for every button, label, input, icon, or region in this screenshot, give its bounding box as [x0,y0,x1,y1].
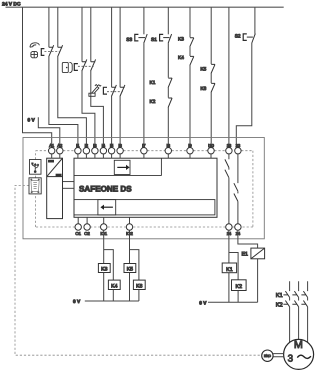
svg-text:A2: A2 [57,143,63,148]
pushbutton S3 contact NO [144,34,148,43]
wires contactor to motor [290,297,308,300]
svg-text:I3: I3 [93,143,97,148]
wire S2 to terminal 23 [236,43,252,148]
wire e-stop channel 2 to I2 [58,57,87,148]
wire e-stop channel 2 (bus to contact) [57,8,59,48]
USB port box [30,160,42,175]
brake E1 [251,248,265,259]
pushbutton S2 actuator [243,34,247,41]
terminal I8 [165,148,171,154]
motor shaft to encoder [273,354,284,357]
encoder ENC [262,350,273,361]
wire left rail to A1 [23,8,52,148]
enabling device (hand) icon [89,85,101,97]
terminal I10 [208,148,214,154]
wire K1 to 0V [228,273,230,303]
svg-text:I9: I9 [188,143,192,148]
three-phase supply stubs [290,281,308,291]
coil K5 [124,264,136,273]
enabling contact NC channel 1 [111,85,116,97]
motor tilde [297,355,311,358]
coil K3 [98,264,110,273]
D-sub programming connector box [29,178,41,194]
enabling device mechanical link (dashed) [107,91,123,93]
wire K3 to 0V [103,273,105,302]
wire K4 to 0V [112,290,114,302]
coil K6 [133,280,145,289]
terminal A2 [57,148,63,154]
safety output contact 23-24 (blades) [234,183,238,201]
power supply unit block [47,158,63,218]
emergency stop actuator symbol [41,49,44,56]
door switch actuator symbol [74,64,78,71]
terminal labels bottom [75,231,240,236]
terminal labels top [49,143,241,148]
svg-text:I7: I7 [142,143,146,148]
USB icon [32,163,39,173]
e-stop mechanical link (dashed) [44,51,60,53]
door contact NC channel 1 [82,59,87,71]
coil K2 [232,280,247,291]
wire K2 to 0V [237,291,239,303]
output band [74,200,215,215]
wire S1 to K1 contact [167,43,169,77]
contactor K1 main contacts [283,291,307,297]
module dashed device boundary (right edge) [252,151,254,227]
wire e-stop channel 1 to I1 [49,57,78,148]
wire bus to terminal 13 [228,8,230,148]
wire K5 to K6 [210,73,212,83]
terminal I4 [100,148,106,154]
svg-text:K2: K2 [150,99,156,105]
safety output contact 13-14 (blades) [225,159,229,177]
wire S2 branch (bus to contact) [254,8,256,34]
wire door switch channel 2 to I4 [91,71,104,148]
svg-text:I8: I8 [167,143,171,148]
svg-text:K4: K4 [111,283,117,289]
terminal 14 [226,224,232,230]
wire branch to coil K6 [130,250,139,281]
wire IO2 to coil K5 [129,230,131,263]
wire K6 to I10 [210,92,212,147]
wire K1 to K2 contact [167,88,169,98]
svg-text:A1: A1 [49,143,55,148]
module dashed device boundary (bottom row) [241,226,253,228]
pushbutton S1 contact NO [168,34,172,43]
terminal I1 [75,148,81,154]
svg-text:0 V: 0 V [199,300,207,306]
contactor K2 main contacts [283,301,307,307]
svg-text:K6: K6 [136,283,142,289]
wire IO1 to coil K3 [103,230,105,263]
wire enabling device channel 2 (bus to contact) [119,8,121,88]
svg-text:K3: K3 [101,267,107,273]
terminal 23 [235,148,241,154]
link power supply to logic block [63,182,75,189]
pushbutton S2 contact NO [252,34,256,43]
terminal IO2 [126,224,132,230]
terminal I5 [108,148,114,154]
terminal circles top row [49,148,242,231]
module dashed device boundary (top row) [36,151,253,227]
terminal stubs top [52,154,211,158]
svg-text:S2: S2 [235,33,241,39]
svg-text:S3: S3 [126,37,132,43]
door switch mechanical link (dashed) [78,65,94,67]
input arrow (right) [117,166,126,168]
wire K2 contact to I8 [167,108,169,148]
wire K3 to K4 [189,47,191,56]
svg-text:3: 3 [288,354,294,365]
svg-text:I4: I4 [102,143,106,148]
svg-text:K3: K3 [178,36,184,42]
wire K6 to 0V [138,290,140,302]
output arrow cell [98,200,116,215]
wire K3/K4 branch (bus to K3) [189,8,191,38]
svg-text:K1: K1 [226,267,233,273]
wire door switch channel 1 (bus to contact) [81,8,83,62]
svg-text:ENC: ENC [264,354,271,358]
emergency stop SQ1 icon [30,43,40,58]
coil K4 [108,280,120,289]
input band [74,158,161,175]
terminal IO1 [101,224,107,230]
svg-text:I6: I6 [118,143,122,148]
SAFEONE DS module: outer solid enclosure [23,138,264,239]
safety output contact 13-14 (wire) [228,154,230,224]
svg-text:I5: I5 [110,143,114,148]
svg-text:24 V DC: 24 V DC [2,2,21,8]
svg-text:K5: K5 [127,267,133,273]
svg-text:K4: K4 [178,55,184,61]
wire door switch channel 1 to I3 [82,71,95,148]
svg-text:S1: S1 [151,37,157,43]
terminal A1 [49,148,55,154]
svg-text:0 V: 0 V [28,118,36,124]
wire 0V to A2 [38,117,60,147]
terminal I2 [83,148,89,154]
wire branch to coil K2 [229,253,238,280]
wire S3 to I7 [143,43,145,147]
terminal I6 [117,148,123,154]
svg-text:23: 23 [236,143,241,148]
contact K6 NO [211,83,215,92]
contact K5 NO [211,64,215,73]
wire enabling device channel 1 to I5 [111,97,113,148]
contact K1 NO [168,78,172,88]
terminal I3 [92,148,98,154]
svg-text:K1: K1 [276,293,283,299]
terminal O1 [75,224,81,230]
module dashed device boundary (left edge) [35,194,37,227]
enabling contact NC channel 2 [120,85,125,97]
main logic block SAFEONE DS [74,158,217,217]
wire S1/K1/K2 branch (bus to S1) [167,8,169,35]
wire K4 to I9 [189,65,191,147]
wire enabling device channel 1 (bus to contact) [111,8,113,88]
svg-text:K1: K1 [150,80,156,86]
svg-text:O1: O1 [75,231,81,236]
terminal 24 [235,224,241,230]
wire 24V bus [6,6,284,8]
input arrow cell [114,160,130,174]
svg-text:K6: K6 [200,86,206,92]
e-stop contact NC channel 2 [58,45,63,57]
pushbutton S1 actuator [160,34,164,41]
svg-text:E1: E1 [242,252,249,258]
wire K5/K6 branch (bus to K5) [210,8,212,65]
wire K5 to 0V [129,273,131,302]
wire 24 to brake E1 [238,230,258,248]
door interlock switch icon [62,62,72,72]
encoder feedback cable (dashed) [15,185,262,355]
svg-text:13: 13 [227,143,232,148]
svg-text:I10: I10 [208,143,214,148]
wire e-stop channel 1 (bus to contact) [48,8,50,48]
terminal I7 [141,148,147,154]
svg-text:I1: I1 [76,143,80,148]
svg-text:K2: K2 [276,301,283,308]
svg-text:O2: O2 [84,231,90,236]
contact K2 NO [168,98,172,108]
wire enabling device channel 2 to I6 [119,97,121,148]
coil K1 [222,263,236,273]
wire door switch channel 2 (bus to contact) [90,8,92,62]
svg-text:0 V: 0 V [73,299,81,305]
terminal 13 [226,148,232,154]
svg-text:K5: K5 [200,67,206,73]
wire 14 to coil K1 [228,230,230,263]
wire branch to coil K4 [104,250,114,281]
terminal O2 [84,224,90,230]
svg-text:SAFEONE DS: SAFEONE DS [79,184,132,193]
terminal I9 [187,148,193,154]
wire S3 branch (bus to contact) [143,8,145,35]
svg-text:I2: I2 [85,143,89,148]
wire E1 to 0V [257,259,259,303]
contact K4 NO [190,56,194,65]
output arrow (left) [104,206,113,208]
door contact NC channel 2 [91,59,96,71]
motor M1 3-phase [284,339,314,369]
pushbutton S3 actuator [135,34,139,41]
terminal stubs bottom [78,217,129,224]
enabling device actuator symbol [103,87,107,94]
safety output contact 23-24 (wire) [237,154,239,224]
D-sub connector icon [31,179,40,193]
e-stop contact NC channel 1 [49,45,54,57]
svg-text:K2: K2 [236,284,243,290]
svg-text:M: M [294,339,303,351]
contact K3 NO [190,38,194,47]
